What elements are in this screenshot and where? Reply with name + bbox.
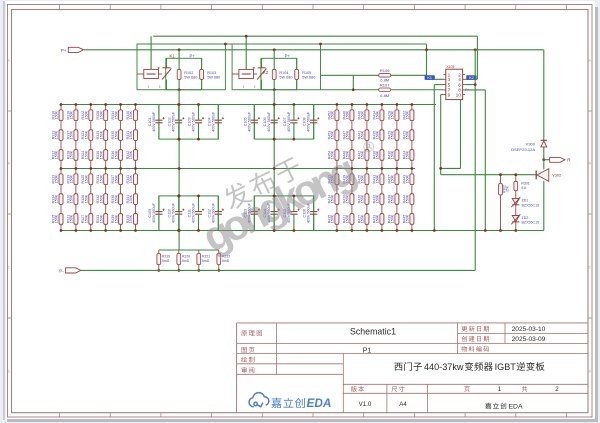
capacitor C103	[195, 105, 204, 140]
svg-text:2025-03-09: 2025-03-09	[512, 336, 546, 343]
svg-text:150K: 150K	[391, 130, 395, 139]
wire resistor chain col x=366.9 y=168.5	[365, 169, 369, 231]
svg-text:150K: 150K	[114, 174, 118, 183]
label R420	[342, 194, 349, 203]
junction cap C106	[273, 103, 276, 140]
svg-text:150K: 150K	[85, 130, 89, 139]
junction cap C111	[197, 195, 200, 232]
svg-text:5.6: 5.6	[521, 186, 526, 190]
resistor R318	[74, 150, 78, 161]
wire resistor chain col x=396.9 y=104.5	[395, 105, 399, 169]
label R103	[207, 71, 220, 80]
resistor R102	[177, 69, 181, 79]
label R323	[81, 130, 88, 139]
label R429	[387, 130, 394, 139]
zener ZD1	[511, 197, 520, 207]
wire base line to V302	[441, 174, 537, 176]
title block value A4	[399, 401, 407, 408]
resistor R334	[119, 110, 123, 121]
label X103	[446, 65, 454, 69]
resistor R437	[395, 174, 399, 185]
label R316	[66, 110, 73, 119]
junction relay rect taps on bus2	[224, 43, 322, 46]
svg-text:V1.0: V1.0	[359, 401, 372, 408]
label C111	[188, 202, 196, 223]
junction V300/R flag	[542, 158, 545, 161]
svg-text:150K: 150K	[361, 194, 365, 203]
resistor R426	[365, 194, 369, 205]
resistor R221	[197, 250, 201, 270]
wire mid bus	[61, 168, 415, 170]
resistor R448	[350, 150, 354, 161]
resistor R452	[335, 110, 339, 121]
svg-text:400V 560uF: 400V 560uF	[192, 111, 196, 132]
label R330	[96, 150, 103, 159]
svg-text:4: 4	[458, 77, 461, 82]
svg-text:150K: 150K	[406, 130, 410, 139]
label R335	[111, 130, 118, 139]
label relay K2 name	[263, 70, 269, 75]
svg-text:150K: 150K	[99, 150, 103, 159]
resistor R326	[89, 194, 93, 205]
svg-text:150K: 150K	[114, 130, 118, 139]
wire pin5 drop	[434, 85, 443, 231]
wire P+ drop through K2	[273, 50, 275, 70]
label relay K1 name	[170, 54, 176, 59]
label R338	[111, 194, 118, 203]
title block value 2025-03-10	[512, 326, 546, 333]
svg-text:EDA: EDA	[509, 403, 523, 410]
label C110	[168, 202, 176, 223]
label R312	[51, 150, 58, 159]
resistor R332	[104, 194, 108, 205]
resistor R341	[134, 130, 138, 141]
label R431	[372, 174, 379, 183]
svg-text:R103: R103	[207, 71, 216, 75]
svg-text:1: 1	[498, 386, 502, 393]
label R438	[387, 194, 394, 203]
junction chain bottoms	[433, 229, 517, 232]
junction P+ bus tap K2	[273, 48, 276, 51]
label R313	[51, 174, 58, 183]
resistor R336	[119, 150, 123, 161]
svg-text:150K: 150K	[129, 174, 133, 183]
svg-text:400V 560uF: 400V 560uF	[307, 111, 311, 132]
wire resistor chain col x=411.9 y=104.5	[410, 105, 414, 169]
label R445	[402, 214, 409, 223]
label R340	[126, 110, 133, 119]
svg-text:Schematic1: Schematic1	[350, 327, 396, 337]
label C109	[148, 202, 156, 223]
resistor R424	[410, 150, 414, 161]
resistor R434	[380, 110, 384, 121]
resistor R415	[335, 214, 339, 225]
wire resistor chain col x=90.8 y=168.5	[89, 169, 93, 231]
label R432	[372, 194, 379, 203]
capacitor C113	[251, 196, 260, 231]
net label K2	[466, 75, 476, 80]
svg-text:150K: 150K	[406, 214, 410, 223]
label R435	[372, 130, 379, 139]
label relay K2 P+ net	[285, 54, 291, 59]
svg-text:R219: R219	[162, 255, 170, 259]
svg-text:BZX55C15: BZX55C15	[522, 221, 540, 225]
svg-text:150K: 150K	[85, 214, 89, 223]
resistor R413	[335, 174, 339, 185]
svg-text:150K: 150K	[391, 194, 395, 203]
svg-text:400V 560uF: 400V 560uF	[211, 111, 215, 132]
svg-text:R220: R220	[182, 255, 190, 259]
svg-text:150K: 150K	[70, 110, 74, 119]
svg-text:ZD1: ZD1	[522, 199, 529, 203]
title block value P1	[363, 347, 372, 354]
svg-text:6.8M: 6.8M	[380, 93, 389, 98]
junction pin6	[474, 83, 477, 86]
svg-text:15K: 15K	[506, 185, 510, 192]
wire R104 to block bottom	[273, 79, 275, 89]
svg-text:150K: 150K	[70, 214, 74, 223]
resistor R438	[395, 194, 399, 205]
svg-text:K2: K2	[263, 70, 269, 75]
resistor R319	[74, 174, 78, 185]
svg-text:X103: X103	[446, 65, 454, 69]
label R454	[327, 150, 334, 159]
net flag R	[544, 157, 571, 162]
wire resistor chain col x=75.9 y=104.5	[74, 105, 78, 169]
svg-text:P+: P+	[61, 48, 67, 53]
logo 嘉立创EDA text	[271, 398, 304, 408]
svg-text:400V 560uF: 400V 560uF	[172, 111, 176, 132]
label R337	[111, 174, 118, 183]
net label K1	[425, 75, 435, 80]
wire resistor chain col x=381.9 y=168.5	[380, 169, 384, 231]
svg-text:150K: 150K	[129, 214, 133, 223]
resistor R325	[89, 174, 93, 185]
svg-text:5W 680: 5W 680	[279, 76, 292, 80]
svg-text:400V 560uF: 400V 560uF	[247, 111, 251, 132]
wire resistor chain col x=336.9 y=168.5	[335, 169, 339, 231]
resistor R315	[59, 214, 63, 225]
title block value 2025-03-09	[512, 336, 546, 343]
svg-text:P1: P1	[363, 347, 372, 354]
capacitor C107	[290, 105, 299, 140]
junction feed vertical dots	[178, 103, 276, 232]
title block label 更新日期	[462, 326, 489, 332]
wire resistor chain col x=336.9 y=104.5	[335, 105, 339, 169]
svg-text:150K: 150K	[376, 174, 380, 183]
title block label 尺寸	[392, 386, 405, 392]
wire bus1 drop to relay K1 coil	[150, 36, 152, 69]
svg-text:150K: 150K	[391, 150, 395, 159]
wire K2 right to R106	[321, 74, 379, 76]
resistor R422	[410, 110, 414, 121]
wire resistor chain col x=381.9 y=104.5	[380, 105, 384, 169]
resistor R447	[350, 130, 354, 141]
label V300	[511, 142, 536, 152]
resistor R301	[514, 181, 518, 190]
label R441	[357, 130, 364, 139]
label ZD2	[522, 216, 540, 225]
label R345	[126, 214, 133, 223]
resistor R420	[350, 194, 354, 205]
svg-text:6: 6	[458, 82, 461, 87]
resistor R337	[119, 174, 123, 185]
svg-text:5W 680: 5W 680	[302, 76, 315, 80]
resistor R427	[365, 214, 369, 225]
svg-text:V302: V302	[552, 174, 561, 178]
label R317	[66, 130, 73, 139]
svg-text:150K: 150K	[129, 110, 133, 119]
label R318	[66, 150, 73, 159]
wire resistor chain col x=61.0 y=168.5	[59, 169, 63, 231]
junction R221 bottom	[197, 269, 200, 272]
resistor R107	[379, 88, 391, 92]
svg-text:R106: R106	[380, 68, 390, 73]
svg-text:150K: 150K	[129, 130, 133, 139]
resistor R340	[134, 110, 138, 121]
label R424	[402, 150, 409, 159]
resistor R321	[74, 214, 78, 225]
label R324	[81, 150, 88, 159]
resistor R453	[335, 130, 339, 141]
label R434	[372, 110, 379, 119]
resistor R428	[395, 110, 399, 121]
svg-text:R221: R221	[202, 255, 210, 259]
svg-text:150K: 150K	[85, 194, 89, 203]
label C104	[207, 111, 215, 132]
resistor R443	[410, 174, 414, 185]
svg-text:5: 5	[448, 82, 451, 87]
title block label 审阅	[242, 367, 255, 373]
wire cap bank loop	[159, 105, 218, 140]
resistor R414	[335, 194, 339, 205]
label V302	[552, 174, 561, 178]
wire relay bottom bus	[321, 89, 379, 91]
capacitor C106	[271, 105, 280, 140]
resistor R444	[410, 194, 414, 205]
resistor R425	[365, 174, 369, 185]
svg-text:150K: 150K	[361, 110, 365, 119]
resistor R441	[365, 130, 369, 141]
capacitor C111	[195, 196, 204, 231]
wire P- bus	[81, 269, 475, 271]
resistor R440	[365, 110, 369, 121]
junction grid bus dots	[60, 103, 414, 232]
svg-text:150K: 150K	[70, 150, 74, 159]
svg-text:10: 10	[456, 92, 462, 97]
svg-text:DSEP29-12A: DSEP29-12A	[511, 147, 535, 152]
wire R301 to ZD1	[515, 191, 517, 199]
svg-text:5W 680: 5W 680	[207, 76, 220, 80]
svg-text:150K: 150K	[55, 130, 59, 139]
junction cap C114	[273, 195, 276, 232]
wire resistor chain col x=396.9 y=168.5	[395, 169, 399, 231]
label R325	[81, 174, 88, 183]
label R320	[66, 194, 73, 203]
wire resistor chain col x=105.7 y=104.5	[104, 105, 108, 169]
resistor R311	[59, 130, 63, 141]
svg-text:9: 9	[448, 92, 451, 97]
wire resistor chain col x=135.5 y=104.5	[134, 105, 138, 169]
label R439	[387, 214, 394, 223]
label C101	[148, 111, 156, 132]
title block label 页	[464, 386, 469, 391]
wire pin9 drop	[441, 95, 444, 175]
label R414	[327, 194, 334, 203]
wire X103 bottom drop	[441, 100, 461, 169]
label R319	[66, 174, 73, 183]
wire resistor chain col x=351.9 y=104.5	[350, 105, 354, 169]
wire bus2 drop to R106 wire	[426, 44, 428, 75]
label R333	[96, 214, 103, 223]
label R433	[372, 214, 379, 223]
label R311	[51, 130, 58, 139]
label R342	[126, 150, 133, 159]
resistor R429	[395, 130, 399, 141]
relay K1 inner wire loop	[166, 58, 202, 89]
junction R302 top	[499, 173, 502, 176]
svg-text:5W 680: 5W 680	[184, 76, 197, 80]
wire R107 to pin7	[391, 89, 444, 91]
title block label 版本	[351, 386, 364, 392]
label R310	[51, 110, 58, 119]
wire top bus 1	[153, 35, 477, 37]
svg-text:K2: K2	[469, 76, 474, 80]
label R329	[96, 130, 103, 139]
watermark	[189, 120, 389, 261]
border zone letters	[8, 59, 592, 374]
svg-text:150K: 150K	[361, 130, 365, 139]
resistor R323	[89, 130, 93, 141]
junction bus3 X103 drop	[474, 48, 477, 51]
label C114	[263, 202, 271, 223]
junction cap C102	[177, 103, 180, 140]
resistor R105	[295, 58, 299, 89]
resistor R344	[134, 194, 138, 205]
svg-text:150K: 150K	[99, 194, 103, 203]
capacitor C108	[310, 105, 319, 140]
resistor R312	[59, 150, 63, 161]
resistor R436	[380, 150, 384, 161]
svg-text:150K: 150K	[361, 214, 365, 223]
wire P+ feed vertical left	[178, 90, 180, 250]
resistor R343	[134, 174, 138, 185]
wire R302 chain	[500, 175, 502, 231]
label C112	[207, 202, 215, 223]
svg-text:3: 3	[448, 77, 451, 82]
relay K2	[232, 58, 266, 89]
label R446	[342, 110, 349, 119]
label C105	[243, 111, 251, 132]
label R104	[279, 71, 292, 80]
svg-text:IGBT: IGBT	[495, 362, 517, 372]
label C102	[168, 111, 176, 132]
label R343	[126, 174, 133, 183]
resistor R431	[380, 174, 384, 185]
svg-text:150K: 150K	[391, 110, 395, 119]
resistor R435	[380, 130, 384, 141]
resistor R433	[380, 214, 384, 225]
junction R219 bottom	[157, 269, 160, 272]
svg-text:150K: 150K	[376, 110, 380, 119]
svg-text:150K: 150K	[346, 150, 350, 159]
resistor R314	[59, 194, 63, 205]
svg-text:150K: 150K	[406, 110, 410, 119]
wire R106 tap down	[352, 75, 354, 89]
capacitor C109	[155, 196, 164, 231]
wire resistor chain col x=90.8 y=104.5	[89, 105, 93, 169]
title block value V1.0	[359, 401, 372, 408]
svg-text:150K: 150K	[346, 110, 350, 119]
svg-text:2025-03-10: 2025-03-10	[512, 326, 546, 333]
transistor V302	[536, 160, 549, 231]
resistor R220	[177, 250, 181, 270]
label R425	[357, 174, 364, 183]
label C108	[303, 111, 311, 132]
svg-text:150K: 150K	[99, 214, 103, 223]
resistor R222	[217, 250, 221, 270]
title block grid	[237, 323, 588, 413]
svg-text:EDA: EDA	[307, 396, 332, 410]
svg-text:V300: V300	[526, 142, 536, 147]
label R421	[342, 214, 349, 223]
label R106	[380, 68, 390, 83]
label R328	[96, 110, 103, 119]
resistor R342	[134, 150, 138, 161]
label R423	[402, 130, 409, 139]
label R426	[357, 194, 364, 203]
svg-text:P+: P+	[285, 54, 291, 59]
label R222	[222, 255, 230, 264]
title block bottom-right 嘉立创EDA	[485, 403, 523, 411]
junction shunt riser	[177, 229, 180, 232]
resistor R446	[350, 110, 354, 121]
resistor R327	[89, 214, 93, 225]
label R302	[503, 185, 510, 193]
svg-text:150K: 150K	[376, 194, 380, 203]
net flag P+	[61, 47, 84, 53]
wire P+ drop through K1	[178, 50, 180, 70]
svg-text:150K: 150K	[114, 150, 118, 159]
svg-text:150K: 150K	[70, 174, 74, 183]
title block label 图页	[242, 347, 255, 353]
label R436	[372, 150, 379, 159]
label R437	[387, 174, 394, 183]
label R219	[162, 255, 170, 264]
svg-text:P-: P-	[59, 269, 64, 274]
wire bus1 drop to relay K2 coil	[245, 36, 247, 69]
label R314	[51, 194, 58, 203]
svg-text:150K: 150K	[99, 174, 103, 183]
svg-text:150K: 150K	[55, 194, 59, 203]
junction K2 bottom	[273, 88, 276, 91]
svg-text:400V 560uF: 400V 560uF	[152, 111, 156, 132]
wire cap bank loop	[254, 105, 313, 140]
resistor R421	[350, 214, 354, 225]
junction pin9/bottom tee	[439, 167, 442, 170]
svg-text:5mΩ: 5mΩ	[222, 259, 230, 263]
svg-text:2: 2	[555, 386, 559, 393]
svg-text:150K: 150K	[129, 194, 133, 203]
label R413	[327, 174, 334, 183]
svg-text:150K: 150K	[406, 174, 410, 183]
label R220	[182, 255, 190, 264]
svg-text:R105: R105	[302, 71, 311, 75]
label R327	[81, 214, 88, 223]
junction P+ bus tap K1	[178, 48, 181, 51]
wire R102 to block bottom	[178, 79, 180, 89]
resistor R442	[365, 150, 369, 161]
